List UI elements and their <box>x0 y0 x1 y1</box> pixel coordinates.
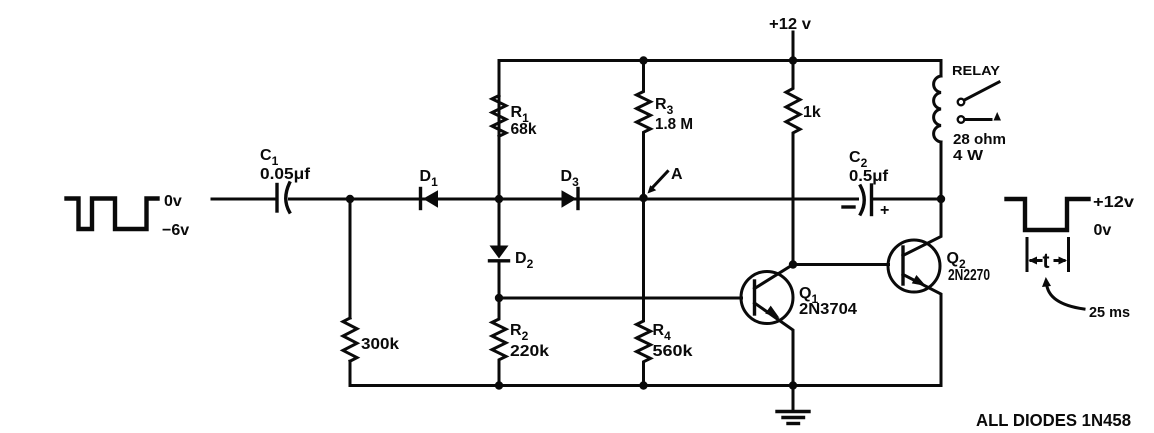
svg-text:2N2270: 2N2270 <box>948 267 990 284</box>
svg-text:28 ohm: 28 ohm <box>953 131 1006 148</box>
svg-text:25 ms: 25 ms <box>1089 304 1130 321</box>
svg-text:0v: 0v <box>164 193 182 210</box>
svg-text:+12v: +12v <box>1093 194 1134 211</box>
svg-text:+12 v: +12 v <box>769 16 811 33</box>
svg-text:0.05μf: 0.05μf <box>260 166 311 183</box>
svg-text:220k: 220k <box>510 343 549 360</box>
svg-text:RELAY: RELAY <box>952 63 1000 78</box>
svg-text:+: + <box>880 202 889 219</box>
svg-text:−6v: −6v <box>162 222 189 239</box>
svg-text:1.8 M: 1.8 M <box>655 116 693 133</box>
svg-text:4 W: 4 W <box>953 147 984 164</box>
svg-text:1k: 1k <box>803 104 821 121</box>
svg-text:2N3704: 2N3704 <box>799 301 857 318</box>
svg-text:560k: 560k <box>653 343 693 360</box>
svg-text:A: A <box>671 166 683 183</box>
svg-text:t: t <box>1043 250 1050 273</box>
svg-text:ALL DIODES 1N458: ALL DIODES 1N458 <box>976 410 1131 430</box>
svg-text:0.5μf: 0.5μf <box>849 168 889 185</box>
svg-text:300k: 300k <box>361 336 399 353</box>
svg-text:0v: 0v <box>1094 222 1112 239</box>
svg-text:68k: 68k <box>511 121 537 138</box>
